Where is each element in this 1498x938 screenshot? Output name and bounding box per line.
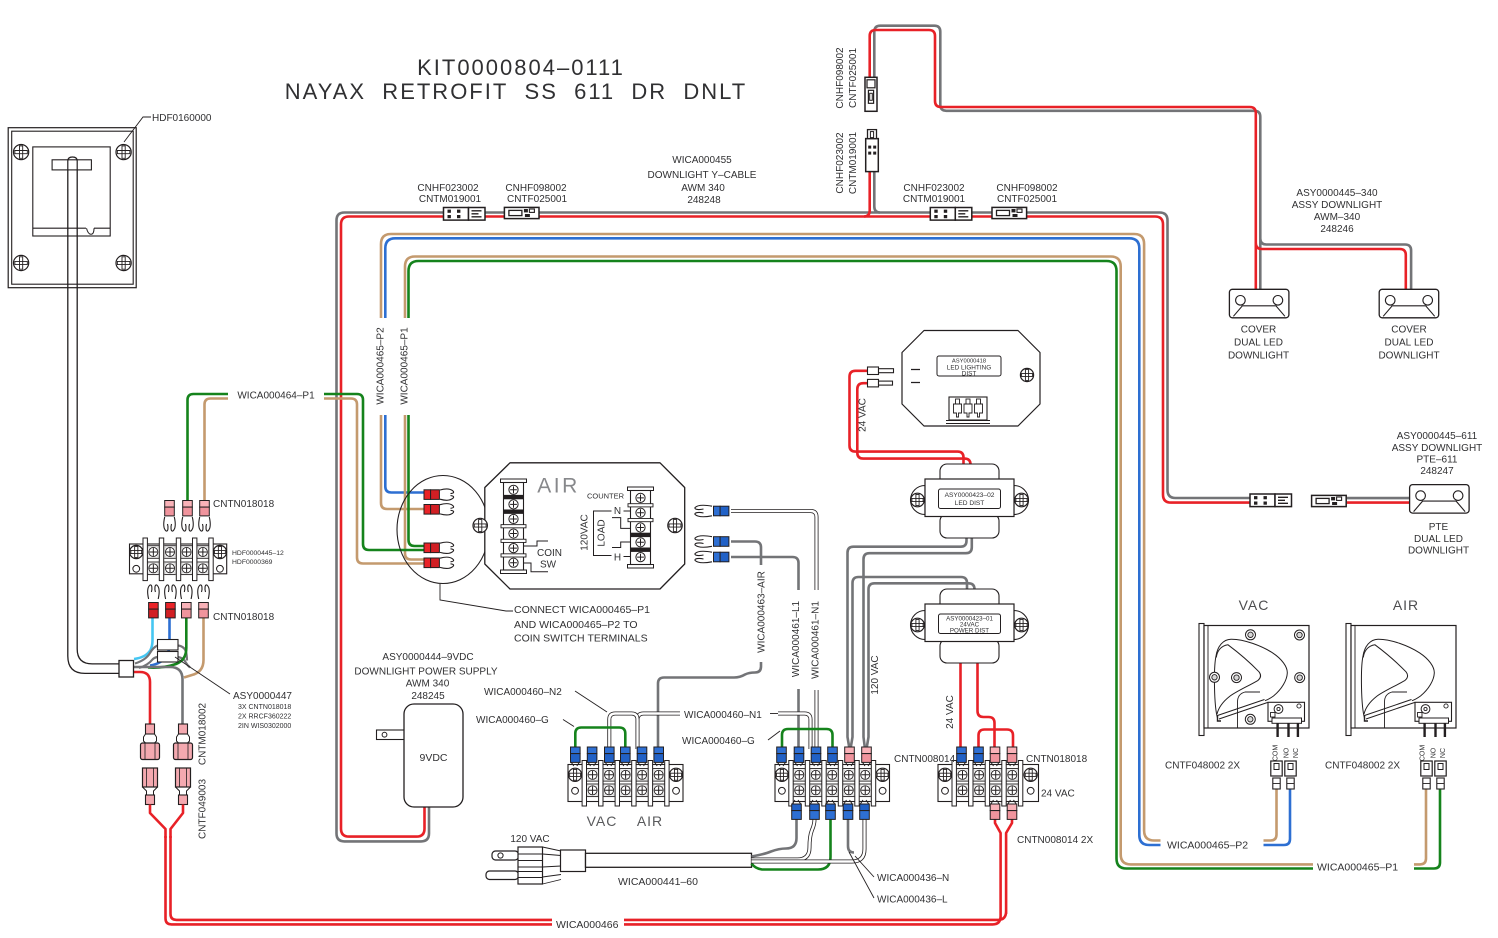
wire red from bullet2 to Y-merge [171, 805, 184, 839]
wire WICA000460-N1 white: left block pole5 to right block pole3 [638, 714, 681, 750]
svg-text:CNHF098002: CNHF098002 [835, 47, 846, 109]
svg-text:ASY0000444–9VDC: ASY0000444–9VDC [382, 652, 473, 663]
svg-text:DIST: DIST [962, 371, 977, 378]
svg-text:DOWNLIGHT Y–CABLE: DOWNLIGHT Y–CABLE [648, 170, 757, 181]
svg-text:N: N [614, 506, 621, 517]
wire WICA000465-P1 green [409, 261, 1314, 869]
svg-text:AWM 340: AWM 340 [406, 679, 450, 690]
wire branch to cover downlights, red [864, 172, 870, 217]
svg-text:NO: NO [1431, 747, 1438, 758]
svg-text:CNTF025001: CNTF025001 [507, 194, 567, 205]
svg-text:248246: 248246 [1320, 224, 1354, 235]
blue fork terminal AIR [695, 536, 712, 547]
svg-text:DOWNLIGHT: DOWNLIGHT [1378, 351, 1439, 362]
top pink crimps CNTN018018 [165, 501, 175, 508]
svg-text:ASY0000445–340: ASY0000445–340 [1296, 188, 1378, 199]
svg-text:248248: 248248 [687, 195, 721, 206]
svg-text:POWER DIST: POWER DIST [950, 628, 989, 635]
svg-text:3X CNTN018018: 3X CNTN018018 [238, 704, 291, 711]
svg-text:CNTN008014: CNTN008014 [894, 754, 956, 765]
wire red from bullet1 to Y-merge [150, 805, 166, 839]
plate T-handle [52, 160, 91, 170]
svg-text:WICA000463–AIR: WICA000463–AIR [757, 571, 768, 653]
svg-text:HDF0000445–12: HDF0000445–12 [232, 550, 284, 557]
svg-text:2IN WIS0302000: 2IN WIS0302000 [238, 723, 291, 730]
wire WICA000465-P1 tan [405, 257, 1313, 865]
svg-text:CNHF098002: CNHF098002 [505, 183, 567, 194]
svg-text:PTE–611: PTE–611 [1417, 455, 1458, 466]
connector CNHF098002/CNTF025001 (top wire left) [504, 207, 539, 218]
svg-text:NO: NO [1284, 747, 1291, 758]
svg-text:PTE: PTE [1429, 522, 1449, 533]
label WICA000460-N1 [682, 706, 776, 720]
COIN SW bracket [524, 541, 549, 572]
label ASY0000447 w/ leader [175, 657, 230, 694]
blue fork terminal N1 [695, 505, 712, 516]
wire WICA000463-AIR grey: AIR box fork to left block pole6 [658, 542, 761, 750]
wire P1 resume after label: green to AIR switch [1414, 790, 1440, 869]
svg-text:WICA000461–L1: WICA000461–L1 [791, 600, 802, 677]
AIR box right terminal strip [628, 487, 654, 491]
bullet connector CNTF049003/CNTM018002 column 1 [146, 724, 155, 734]
svg-text:9VDC: 9VDC [419, 752, 447, 764]
wire WICA000461-N1 white: AIR box fork to right block pole3 [731, 511, 817, 749]
9VDC power supply box [377, 730, 405, 740]
plate screw BL [14, 255, 29, 270]
connector CNHF023002/CNTM019001 (top wire left) [444, 208, 469, 221]
wire blue from cable to small block pole2 [150, 618, 170, 666]
wire P2 resume after label: blue to VAC switch [1264, 790, 1291, 846]
coin switch circle [397, 476, 489, 584]
svg-text:24 VAC: 24 VAC [1041, 789, 1075, 800]
svg-text:CNHF098002: CNHF098002 [996, 183, 1058, 194]
svg-text:KIT0000804–0111: KIT0000804–0111 [417, 55, 625, 80]
wire WICA000455 downlight Y-cable red: left side + top + right side to PTE [341, 217, 1250, 837]
svg-text:CNTF025001: CNTF025001 [997, 194, 1057, 205]
svg-text:WICA000436–L: WICA000436–L [877, 895, 948, 906]
leaders WICA000436 [855, 856, 874, 877]
AIR coin mech box [485, 463, 685, 589]
connector CNHF023002/CNTM019001 vertical branch [866, 139, 879, 172]
svg-text:VAC: VAC [1239, 597, 1270, 613]
wire green loop left block pole1-pole4 (WICA000460-G) [575, 728, 625, 750]
svg-text:AND WICA000465–P2 TO: AND WICA000465–P2 TO [514, 619, 638, 631]
transformer ASY0000423-01 24VAC POWER DIST [940, 589, 999, 613]
wire red jumper 24VAC block c2-c4 [979, 730, 1014, 750]
svg-text:DOWNLIGHT: DOWNLIGHT [1228, 351, 1289, 362]
cover dual LED downlight left [1229, 289, 1289, 318]
svg-text:SW: SW [540, 560, 557, 571]
svg-text:CNTN018018: CNTN018018 [213, 612, 275, 623]
plate screw BR [116, 255, 131, 270]
svg-text:ASY0000445–611: ASY0000445–611 [1397, 431, 1478, 442]
wire P1 resume after label: tan to AIR switch [1414, 790, 1426, 865]
svg-text:WICA000461–N1: WICA000461–N1 [811, 601, 822, 679]
crimps on mains block top [777, 747, 787, 754]
connector CNHF023002/CNTM019001 (top wire right) [930, 208, 955, 221]
svg-text:CNHF023002: CNHF023002 [835, 132, 846, 194]
svg-text:DUAL LED: DUAL LED [1234, 338, 1283, 349]
svg-text:WICA000460–G: WICA000460–G [476, 715, 549, 726]
svg-text:AWM–340: AWM–340 [1314, 212, 1361, 223]
120VAC plug body [518, 847, 543, 884]
transformer ASY0000423-02 LED DIST [940, 464, 999, 488]
connector CNHF098002/CNTF025001 (top wire right) [992, 207, 1027, 218]
svg-text:WICA000436–N: WICA000436–N [877, 873, 949, 884]
plate screw TR [116, 145, 131, 160]
svg-text:COIN SWITCH TERMINALS: COIN SWITCH TERMINALS [514, 633, 648, 645]
plug strain relief cone [543, 847, 562, 884]
svg-text:COVER: COVER [1241, 325, 1277, 336]
svg-text:CNTM019001: CNTM019001 [848, 131, 859, 194]
svg-text:ASY0000447: ASY0000447 [233, 691, 292, 702]
crimps on 24VAC block top [957, 747, 967, 754]
svg-text:120 VAC: 120 VAC [870, 655, 881, 694]
label WICA000465-P1 vertical [398, 318, 417, 415]
door switch plate HDF0160000 [8, 128, 136, 288]
cord wire grey to block pole2 [752, 819, 797, 857]
svg-text:248247: 248247 [1420, 466, 1454, 477]
wire WICA000464-P1 green [188, 394, 229, 502]
svg-text:WICA000460–G: WICA000460–G [682, 736, 755, 747]
wire grey main from cable down to bullet2 [133, 667, 183, 724]
svg-text:NAYAX RETROFIT SS 611 DR: NAYAX RETROFIT SS 611 DR DNLT [285, 79, 747, 104]
svg-text:ASSY DOWNLIGHT: ASSY DOWNLIGHT [1392, 443, 1483, 454]
AIR coin acceptor [1346, 624, 1351, 736]
LED lighting dist bottom connector [949, 397, 987, 420]
AIR box left terminal strip [501, 479, 527, 483]
svg-text:ASSY DOWNLIGHT: ASSY DOWNLIGHT [1292, 200, 1383, 211]
svg-text:CNTN018018: CNTN018018 [213, 499, 275, 510]
connector CNHF023002 on PTE wire [1250, 494, 1275, 507]
crimps on mains block bottom [793, 800, 801, 804]
LED lighting dist octagon [902, 331, 1040, 427]
LOAD bracket [612, 518, 631, 548]
svg-text:AIR: AIR [537, 475, 580, 498]
svg-text:CNTF025001: CNTF025001 [848, 48, 859, 108]
svg-text:CNTN018018: CNTN018018 [1026, 754, 1088, 765]
wire red pair: LED lighting dist to LED dist transformer [850, 371, 964, 467]
svg-text:AWM 340: AWM 340 [681, 183, 725, 194]
terminal block VAC-AIR body [568, 765, 683, 802]
svg-text:VAC: VAC [587, 813, 618, 829]
svg-text:CNTF048002 2X: CNTF048002 2X [1325, 761, 1400, 772]
svg-text:COUNTER: COUNTER [587, 492, 625, 501]
wire tan from small block pole4 down to splice area [184, 618, 204, 678]
svg-text:24 VAC: 24 VAC [858, 398, 869, 432]
wire grey segment between PTE connectors to PTE light [1347, 497, 1410, 500]
svg-text:24 VAC: 24 VAC [945, 695, 956, 729]
vertical wire labels [756, 565, 773, 662]
wire white loop left block pole3-pole5 (WICA000460-N2) [609, 714, 637, 750]
svg-text:LOAD: LOAD [597, 519, 608, 546]
wire WICA000465-P2 blue [385, 238, 1160, 845]
plate window [33, 147, 110, 236]
svg-text:WICA000441–60: WICA000441–60 [618, 876, 698, 888]
svg-text:ASY0000423–02: ASY0000423–02 [945, 492, 995, 499]
blue fork terminal L1 [695, 551, 712, 562]
svg-text:CNHF023002: CNHF023002 [903, 183, 965, 194]
bullet connector CNTF049003/CNTM018002 column 2 [179, 724, 188, 734]
svg-text:WICA000464–P1: WICA000464–P1 [237, 391, 315, 402]
svg-text:WICA000465–P2: WICA000465–P2 [376, 327, 387, 405]
terminal block HDF0000445-12 body [130, 544, 227, 574]
wire branch to cover downlights, grey [874, 172, 880, 213]
120VAC bracket [594, 511, 612, 556]
svg-text:AIR: AIR [1393, 597, 1419, 613]
AIR box right screw [668, 518, 682, 532]
wire grey pair A: LED dist transformer bottom to 24VAC block [848, 535, 967, 749]
wire green loop right block pole1-pole4 (WICA000460-G) [782, 729, 833, 749]
svg-text:WICA000465–P1: WICA000465–P1 [400, 327, 411, 405]
svg-text:WICA000460–N2: WICA000460–N2 [484, 687, 562, 698]
wire WICA000464-P1 tan [205, 399, 229, 503]
wire WICA000466 red pair down the left and along bottom [166, 836, 553, 924]
label WICA000464-P1 [228, 386, 324, 402]
svg-text:CNHF023002: CNHF023002 [417, 183, 479, 194]
wire P2 resume after label: tan to VAC switch [1264, 790, 1277, 841]
svg-text:NC: NC [1440, 748, 1447, 758]
svg-text:DUAL LED: DUAL LED [1414, 534, 1463, 545]
connector CNHF098002/CNTF025001 vertical branch [865, 77, 877, 111]
svg-text:DUAL LED: DUAL LED [1385, 338, 1434, 349]
cord wire white to block pole3 [752, 819, 815, 860]
cord wire white2 to block pole6 [752, 819, 865, 862]
svg-text:CNTM018002: CNTM018002 [198, 702, 209, 765]
svg-text:LED DIST: LED DIST [955, 500, 985, 507]
white cable from door switch plate down to harness [68, 170, 120, 673]
red fork terminal 3 (green wires) [424, 543, 431, 553]
PTE dual LED downlight [1410, 485, 1470, 513]
terminal block 24vac body [938, 765, 1039, 802]
svg-text:CONNECT WICA000465–P1: CONNECT WICA000465–P1 [514, 604, 650, 616]
svg-text:COVER: COVER [1391, 325, 1427, 336]
VAC switch receptacle connectors CNTF048002 [1271, 761, 1282, 776]
cord wire green to block pole4 [752, 819, 831, 870]
red fork terminal 4 (tan wires) [424, 558, 431, 568]
AIR box left screw [473, 518, 487, 532]
red fork terminal 1 (blue wire) [424, 490, 431, 500]
cover dual LED downlight right [1379, 289, 1439, 318]
leader to CONNECT note [440, 584, 513, 611]
svg-text:WICA000455: WICA000455 [672, 155, 732, 166]
svg-text:120 VAC: 120 VAC [510, 834, 549, 845]
wire red segment between PTE connectors to PTE light [1347, 501, 1410, 504]
wire cyan from cable to small block pole1 [134, 618, 153, 659]
wire WICA000455 downlight Y-cable grey: left side + top + right side to PTE [337, 213, 1251, 842]
svg-text:248245: 248245 [411, 691, 445, 702]
VAC coin acceptor [1199, 624, 1204, 736]
wire red2 power dist bottom to 24VAC block c3 (crossover) [978, 662, 995, 749]
bullet terminals into LED lighting dist [868, 367, 879, 375]
svg-text:DOWNLIGHT POWER SUPPLY: DOWNLIGHT POWER SUPPLY [354, 667, 497, 678]
svg-text:COM: COM [1273, 745, 1280, 762]
label HDF0160000 + leader [124, 117, 151, 142]
plate screw TL [14, 145, 29, 160]
svg-text:COIN: COIN [537, 548, 562, 559]
svg-text:COM: COM [1420, 745, 1427, 762]
splice RRCF360222 rect 1 [158, 640, 179, 651]
wire WICA000465-P2 tan [381, 234, 1161, 841]
svg-text:HDF0000369: HDF0000369 [232, 559, 273, 566]
wire WICA000466 red pair right portion to 24VAC block [624, 818, 1001, 924]
wire red1 power dist bottom to 24VAC block c1 [959, 662, 962, 749]
splice RRCF360222 rect 2 [158, 652, 179, 663]
svg-text:NC: NC [1293, 748, 1300, 758]
svg-text:CNTN008014 2X: CNTN008014 2X [1017, 835, 1093, 846]
wire red from cable down to bullet1 [133, 672, 150, 724]
red fork terminal 2 (tan wire) [424, 505, 431, 515]
wire grey splice squiggles [135, 646, 158, 664]
svg-text:2X RRCF360222: 2X RRCF360222 [238, 714, 291, 721]
svg-text:HDF0160000: HDF0160000 [152, 113, 212, 124]
svg-text:AIR: AIR [637, 813, 663, 829]
wire grey pair B: power dist transformer top to 24VAC block [851, 577, 968, 749]
svg-text:CNTF049003: CNTF049003 [198, 779, 209, 839]
120VAC plug prong 1 [492, 851, 519, 860]
svg-text:CNTM019001: CNTM019001 [903, 194, 966, 205]
svg-text:CNTF048002 2X: CNTF048002 2X [1165, 761, 1240, 772]
blue crimps on VAC/AIR block [571, 747, 581, 754]
svg-text:WICA000460–N1: WICA000460–N1 [684, 710, 762, 721]
AIR switch receptacle connectors CNTF048002 [1421, 761, 1432, 776]
svg-text:120VAC: 120VAC [580, 514, 591, 551]
cable body WICA000441-60 [586, 853, 752, 867]
svg-text:DOWNLIGHT: DOWNLIGHT [1408, 546, 1469, 557]
bottom crimps CNTN018018 [148, 585, 159, 599]
label WICA000465-P2 vertical [374, 318, 393, 415]
svg-text:WICA000465–P1: WICA000465–P1 [1317, 862, 1398, 874]
wire green from small block pole3 down to splice area [148, 618, 186, 668]
wire grey stub from block pole5 (WICA000436-L) [848, 819, 854, 853]
svg-text:WICA000465–P2: WICA000465–P2 [1167, 840, 1248, 852]
svg-text:WICA000466: WICA000466 [556, 919, 619, 931]
crimps on 24VAC block bottom + red Y [991, 800, 999, 804]
svg-text:CNTM019001: CNTM019001 [419, 194, 482, 205]
120VAC plug prong 2 [486, 871, 519, 880]
connector CNHF098002 on PTE wire [1312, 495, 1347, 506]
svg-text:H: H [614, 553, 621, 564]
terminal block mains body [775, 765, 890, 802]
wire WICA000461-L1 grey: AIR box fork to right block pole2 [731, 557, 799, 749]
